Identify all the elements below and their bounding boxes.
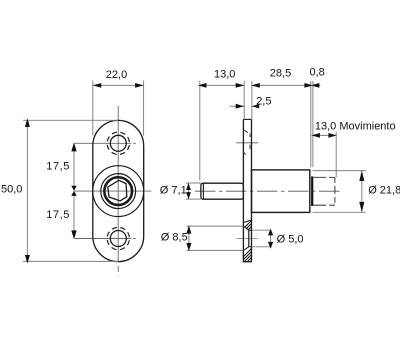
svg-text:Ø 8,5: Ø 8,5	[161, 232, 188, 244]
svg-text:22,0: 22,0	[106, 69, 127, 81]
svg-text:Ø 7,1: Ø 7,1	[160, 184, 187, 196]
svg-text:28,5: 28,5	[270, 68, 291, 80]
svg-text:Ø 5,0: Ø 5,0	[277, 234, 304, 246]
svg-text:13,0 Movimiento: 13,0 Movimiento	[315, 121, 396, 133]
svg-text:50,0: 50,0	[1, 184, 22, 196]
svg-text:0,8: 0,8	[310, 66, 325, 78]
svg-text:Ø 21,8: Ø 21,8	[368, 184, 400, 196]
svg-text:17,5: 17,5	[46, 209, 70, 221]
svg-text:13,0: 13,0	[214, 69, 235, 81]
svg-text:17,5: 17,5	[46, 161, 70, 173]
svg-text:2,5: 2,5	[256, 96, 271, 108]
